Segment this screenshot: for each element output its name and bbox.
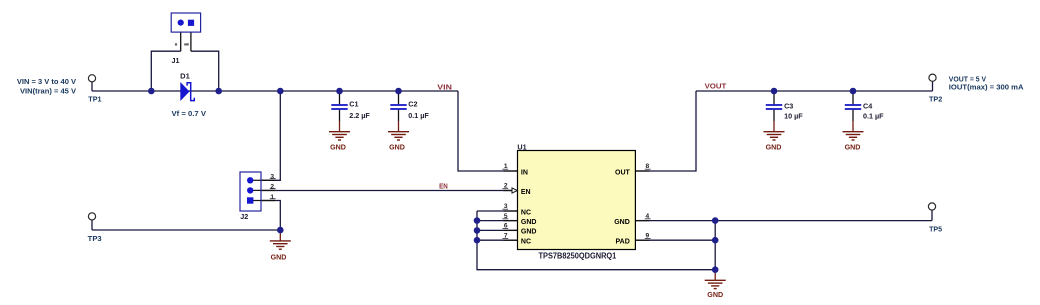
svg-text:GND: GND (389, 143, 405, 152)
svg-text:GND: GND (766, 143, 782, 152)
svg-text:J2: J2 (240, 212, 248, 221)
svg-text:OUT: OUT (615, 169, 631, 176)
svg-text:J1: J1 (172, 56, 180, 65)
svg-text:EN: EN (521, 189, 531, 196)
svg-text:TPS7B8250QDGNRQ1: TPS7B8250QDGNRQ1 (539, 252, 617, 261)
svg-text:TP5: TP5 (929, 224, 942, 233)
svg-text:NC: NC (521, 209, 531, 216)
svg-text:VOUT: VOUT (705, 82, 727, 91)
svg-text:IN: IN (521, 169, 528, 176)
svg-text:IOUT(max) = 300 mA: IOUT(max) = 300 mA (949, 83, 1024, 92)
svg-text:VIN = 3 V to 40 V: VIN = 3 V to 40 V (17, 77, 76, 86)
svg-text:GND: GND (521, 219, 537, 226)
svg-text:VIN: VIN (437, 83, 452, 92)
svg-text:TP1: TP1 (88, 95, 101, 104)
svg-text:EN: EN (439, 181, 448, 190)
svg-text:3: 3 (270, 174, 274, 181)
svg-text:GND: GND (614, 219, 630, 226)
svg-text:TP3: TP3 (88, 234, 102, 243)
svg-text:C1: C1 (349, 100, 358, 109)
svg-text:C4: C4 (863, 102, 872, 111)
svg-text:GND: GND (845, 143, 861, 152)
svg-text:NC: NC (521, 239, 531, 246)
svg-text:10 µF: 10 µF (784, 112, 803, 121)
svg-text:PAD: PAD (616, 239, 630, 246)
svg-text:GND: GND (271, 252, 287, 261)
svg-text:1: 1 (270, 194, 274, 201)
svg-text:U1: U1 (517, 142, 526, 151)
svg-text:D1: D1 (180, 72, 190, 81)
svg-text:0.1 µF: 0.1 µF (863, 112, 884, 121)
svg-text:0.1 µF: 0.1 µF (408, 111, 429, 120)
svg-text:C2: C2 (408, 100, 417, 109)
svg-text:C3: C3 (784, 102, 793, 111)
svg-text:Vf = 0.7 V: Vf = 0.7 V (172, 109, 207, 118)
svg-text:2.2 µF: 2.2 µF (349, 111, 370, 120)
svg-text:VIN(tran) = 45 V: VIN(tran) = 45 V (20, 87, 76, 96)
svg-text:GND: GND (707, 290, 723, 299)
svg-text:TP2: TP2 (929, 94, 942, 103)
svg-text:GND: GND (330, 143, 346, 152)
svg-text:GND: GND (521, 229, 537, 236)
svg-text:2: 2 (270, 184, 274, 191)
